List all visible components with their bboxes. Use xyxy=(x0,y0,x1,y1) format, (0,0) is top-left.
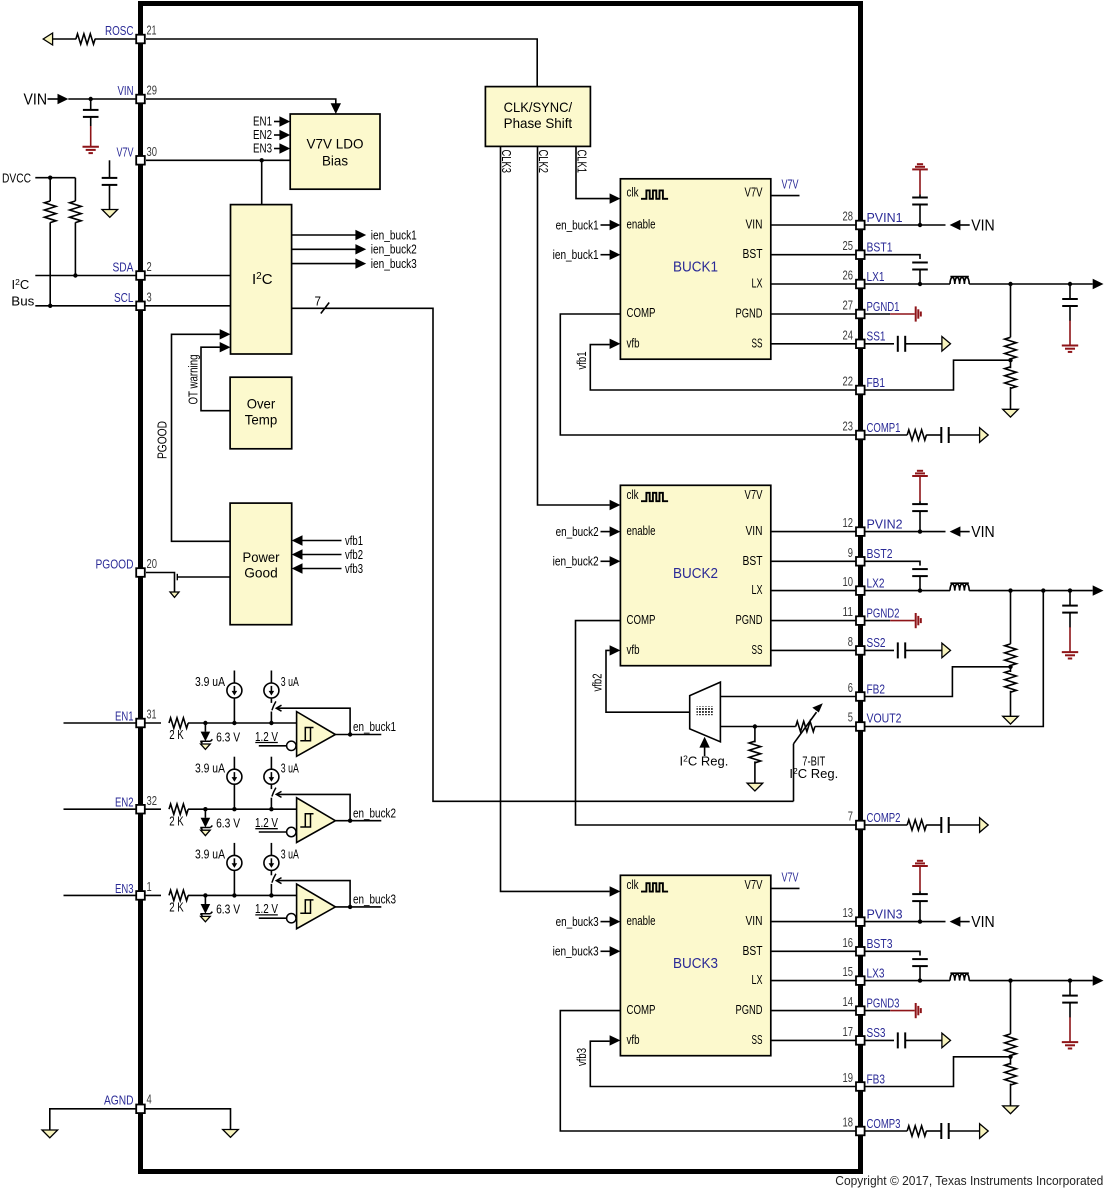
off-page connector SS1 xyxy=(942,337,951,352)
resistor feedback top R BUCK1 xyxy=(1010,284,1012,337)
pin 29 VIN xyxy=(136,95,145,104)
svg-text:vfb3: vfb3 xyxy=(575,1048,589,1066)
wire FB3 from divider to pin xyxy=(865,1057,1011,1087)
node EN3 switch xyxy=(269,893,273,897)
block V7V LDO Bias xyxy=(290,114,380,189)
svg-text:SS: SS xyxy=(752,1032,763,1047)
svg-text:PGND: PGND xyxy=(736,612,763,627)
variable resistor 7-bit trim xyxy=(796,721,815,731)
svg-text:BUCK1: BUCK1 xyxy=(673,259,718,275)
svg-text:en_buck3: en_buck3 xyxy=(353,892,396,907)
wire V7V net xyxy=(146,159,290,161)
svg-text:BST: BST xyxy=(743,943,763,958)
power ground symbol PGND2 xyxy=(915,613,917,628)
pin 7 COMP2 xyxy=(856,821,865,830)
wire LX pin BUCK3 xyxy=(771,980,856,982)
capacitor output BUCK3 xyxy=(1069,981,1071,996)
svg-text:enable: enable xyxy=(627,523,656,538)
wire SS pin BUCK2 xyxy=(771,649,856,651)
svg-text:vfb: vfb xyxy=(627,335,640,350)
resistor feedback bottom R BUCK3 xyxy=(1010,1057,1012,1065)
svg-text:22: 22 xyxy=(843,374,854,389)
mux select arrow from I2C register xyxy=(704,747,706,757)
wire COMP1 from COMP output xyxy=(560,314,856,435)
current source 3.9uA EN2 xyxy=(233,784,235,809)
svg-text:I2C: I2C xyxy=(252,271,273,288)
svg-text:5: 5 xyxy=(848,710,853,725)
svg-text:PGOOD: PGOOD xyxy=(156,421,170,459)
svg-text:Power: Power xyxy=(243,549,280,565)
pin 4 AGND xyxy=(136,1105,145,1114)
comparator output en_buck3 xyxy=(335,906,381,908)
node VOUT2 divider tap xyxy=(720,726,795,728)
svg-text:Bus: Bus xyxy=(11,294,35,309)
Power Good input vfb2 xyxy=(292,549,303,559)
capacitor soft-start SS2 xyxy=(897,642,899,658)
resistor R pullup SDA xyxy=(74,178,76,201)
wire VIN pin BUCK1 xyxy=(771,224,856,226)
svg-text:COMP: COMP xyxy=(627,305,656,320)
wire PGOOD net from Power Good to I2C xyxy=(172,334,231,541)
pin 22 FB1 xyxy=(856,386,865,395)
svg-text:ien_buck3: ien_buck3 xyxy=(553,944,599,959)
ground output cap BUCK3 xyxy=(1062,1041,1078,1043)
svg-text:8: 8 xyxy=(848,634,853,649)
svg-text:LX: LX xyxy=(752,582,763,597)
svg-text:I2C: I2C xyxy=(12,277,30,292)
svg-text:en_buck1: en_buck1 xyxy=(353,719,396,734)
svg-text:OT warning: OT warning xyxy=(187,354,201,404)
zener diode 6.3V EN3 xyxy=(204,895,206,904)
resistor feedback bottom R BUCK2 xyxy=(1010,667,1012,672)
svg-text:20: 20 xyxy=(147,556,158,571)
wire VIN to V7V LDO xyxy=(146,99,336,104)
inductor L3 xyxy=(950,974,969,981)
svg-text:BST: BST xyxy=(743,553,763,568)
ground AGND right xyxy=(223,1130,239,1138)
svg-text:VOUT2: VOUT2 xyxy=(867,711,902,726)
node VIN bypass xyxy=(89,97,93,101)
capacitor PVIN3 bypass xyxy=(919,901,921,922)
svg-text:6: 6 xyxy=(848,680,853,695)
current source 3uA EN1 xyxy=(264,683,279,698)
resistor 2K EN2 xyxy=(169,804,188,814)
svg-text:FB1: FB1 xyxy=(867,375,886,390)
svg-text:1.2 V: 1.2 V xyxy=(255,729,278,744)
svg-text:3: 3 xyxy=(147,289,152,304)
svg-text:BUCK2: BUCK2 xyxy=(673,566,718,582)
resistor 2K EN1 xyxy=(169,718,188,728)
node feedback tap BUCK1 xyxy=(1010,359,1012,361)
wire V7V to I2C block xyxy=(261,160,263,204)
ground feedback divider BUCK3 xyxy=(1003,1106,1019,1114)
I2C output ien_buck2 xyxy=(292,248,356,250)
wire EN1 node segment xyxy=(188,722,297,724)
svg-text:LX3: LX3 xyxy=(867,965,885,980)
ground V7V bypass AGND triangle xyxy=(102,210,118,218)
node EN2 3.9uA xyxy=(232,807,236,811)
svg-text:V7V: V7V xyxy=(745,877,763,892)
svg-text:VIN: VIN xyxy=(118,83,134,98)
svg-text:clk: clk xyxy=(627,487,639,502)
IC boundary rectangle xyxy=(141,4,861,1172)
svg-text:24: 24 xyxy=(843,327,854,342)
ground AGND left xyxy=(42,1130,58,1138)
pin 26 LX1 xyxy=(856,280,865,289)
svg-text:Copyright © 2017, Texas Instru: Copyright © 2017, Texas Instruments Inco… xyxy=(835,1173,1103,1188)
svg-text:7: 7 xyxy=(848,809,853,824)
svg-text:CLK2: CLK2 xyxy=(536,150,550,174)
comparator EN1 xyxy=(297,712,336,757)
svg-text:3.9 uA: 3.9 uA xyxy=(195,760,225,775)
reference 1.2V EN3 xyxy=(287,914,296,923)
ground PGOOD FET source xyxy=(170,592,179,597)
svg-text:LX1: LX1 xyxy=(867,269,885,284)
capacitor output BUCK2 xyxy=(1069,591,1071,606)
pin 19 FB3 xyxy=(856,1082,865,1091)
svg-text:V7V: V7V xyxy=(782,177,799,192)
block Over Temp xyxy=(230,377,292,449)
power ground symbol PGND3 xyxy=(915,1003,917,1018)
svg-text:vfb3: vfb3 xyxy=(345,561,363,576)
svg-text:13: 13 xyxy=(843,905,854,920)
svg-text:27: 27 xyxy=(843,298,854,313)
block BUCK1 xyxy=(620,179,770,359)
zener diode 6.3V EN2 xyxy=(204,809,206,818)
svg-text:4: 4 xyxy=(147,1092,152,1107)
capacitor PVIN2 bypass xyxy=(919,511,921,531)
svg-text:19: 19 xyxy=(843,1070,854,1085)
svg-text:21: 21 xyxy=(147,23,157,38)
wire ROSC external xyxy=(53,38,77,40)
wire EN2 external xyxy=(64,808,137,810)
svg-text:1: 1 xyxy=(147,879,152,894)
reference 1.2V EN1 xyxy=(287,741,296,750)
capacitor BST1 bootstrap xyxy=(912,262,928,264)
reference 1.2V EN2 xyxy=(287,827,296,836)
arrowhead output BUCK3 xyxy=(1093,975,1104,985)
inductor L2 xyxy=(950,584,969,591)
svg-text:enable: enable xyxy=(627,217,656,232)
wire SS1 to off-page xyxy=(905,343,942,345)
pin 9 BST2 xyxy=(856,557,865,566)
BUCK3 V7V net stub and label xyxy=(771,887,800,889)
svg-text:ien_buck1: ien_buck1 xyxy=(553,247,599,262)
ground PVIN3 inverted earth xyxy=(917,860,923,862)
resistor on ROSC xyxy=(76,34,95,44)
feedback wire to switch EN2 xyxy=(278,794,351,820)
wire EN3 external xyxy=(64,894,137,896)
svg-text:SCL: SCL xyxy=(114,290,134,305)
svg-text:23: 23 xyxy=(843,419,854,434)
ground zener EN3 xyxy=(201,916,211,921)
switch EN1 hysteresis current xyxy=(270,698,272,703)
pin 18 COMP3 xyxy=(856,1127,865,1136)
current source 3uA EN2 xyxy=(264,769,279,784)
svg-text:V7V LDO: V7V LDO xyxy=(307,135,364,151)
svg-text:vfb2: vfb2 xyxy=(591,673,605,691)
svg-text:PGND: PGND xyxy=(736,306,763,321)
wire LX1 output xyxy=(969,283,1092,285)
svg-text:clk: clk xyxy=(627,877,639,892)
node EN1 3.9uA xyxy=(232,721,236,725)
svg-text:ien_buck3: ien_buck3 xyxy=(371,256,417,271)
off-page connector ROSC xyxy=(43,33,52,45)
block BUCK2 xyxy=(620,485,770,665)
feedback wire to switch EN3 xyxy=(278,881,351,907)
svg-text:CLK1: CLK1 xyxy=(575,150,589,174)
wire EN1 external xyxy=(64,722,137,724)
svg-text:3 uA: 3 uA xyxy=(281,674,299,689)
wire LX pin BUCK2 xyxy=(771,590,856,592)
svg-text:PGND: PGND xyxy=(736,1002,763,1017)
svg-text:VIN: VIN xyxy=(971,217,995,234)
wire LX2 output xyxy=(969,590,1092,592)
wire PGND pin BUCK2 xyxy=(771,620,856,622)
svg-text:COMP3: COMP3 xyxy=(867,1116,901,1131)
node V7V xyxy=(260,158,264,162)
pin 6 FB2 xyxy=(856,692,865,701)
I2C input PGOOD arrow xyxy=(220,329,231,339)
svg-text:SS1: SS1 xyxy=(867,329,886,344)
mux hatch pattern xyxy=(697,706,713,715)
Power Good input vfb1 xyxy=(292,535,303,545)
svg-text:6.3 V: 6.3 V xyxy=(216,816,240,831)
svg-text:BUCK3: BUCK3 xyxy=(673,956,718,972)
svg-text:VIN: VIN xyxy=(746,217,763,232)
svg-text:1.2 V: 1.2 V xyxy=(255,901,278,916)
node EN3 3.9uA xyxy=(232,893,236,897)
svg-text:VIN: VIN xyxy=(746,523,763,538)
wire SCL xyxy=(35,305,136,307)
wire ROSC to CLK/SYNC block xyxy=(146,39,537,87)
pin 17 SS3 xyxy=(856,1036,865,1045)
switch EN2 hysteresis current xyxy=(270,784,272,789)
wire EN1 to resistor xyxy=(145,722,161,724)
VIN arrowhead and label BUCK2 xyxy=(950,526,961,536)
svg-text:11: 11 xyxy=(843,604,854,619)
svg-text:PVIN2: PVIN2 xyxy=(867,516,903,531)
pin 25 BST1 xyxy=(856,250,865,259)
svg-text:2: 2 xyxy=(147,259,152,274)
svg-text:PGND1: PGND1 xyxy=(867,299,900,314)
wire LX3 output xyxy=(969,980,1092,982)
wire COMP2 from COMP output xyxy=(576,621,857,825)
svg-text:SS: SS xyxy=(752,642,763,657)
wire BST pin BUCK1 xyxy=(771,254,856,256)
svg-text:18: 18 xyxy=(843,1115,854,1130)
svg-text:LX: LX xyxy=(752,276,763,291)
ground output cap BUCK1 xyxy=(1062,345,1078,347)
svg-text:15: 15 xyxy=(843,964,854,979)
open-drain transistor at PGOOD xyxy=(176,574,178,581)
wire VOUT2 sense to output node xyxy=(865,591,1044,727)
svg-text:I2C Reg.: I2C Reg. xyxy=(789,766,838,781)
wire VOUT2 to trim resistor xyxy=(815,726,856,728)
wire PGND pin BUCK3 xyxy=(771,1010,856,1012)
capacitor BST2 bootstrap xyxy=(912,568,928,570)
arrowhead output BUCK1 xyxy=(1093,279,1104,289)
bus width slash xyxy=(321,303,329,314)
svg-text:V7V: V7V xyxy=(782,869,799,884)
wire PGOOD pin to open-drain FET xyxy=(146,573,175,593)
resistor R pullup SCL xyxy=(49,178,51,201)
svg-text:ien_buck2: ien_buck2 xyxy=(553,554,599,569)
pin 14 PGND3 xyxy=(856,1006,865,1015)
wire mux output to vfb2 xyxy=(606,650,690,712)
ground VIN bypass xyxy=(83,146,99,148)
current source 3uA EN3 xyxy=(264,855,279,870)
wire OT warning net xyxy=(201,347,230,411)
wire LX pin BUCK1 xyxy=(771,283,856,285)
svg-text:vfb1: vfb1 xyxy=(575,351,589,369)
svg-text:3 uA: 3 uA xyxy=(281,847,299,862)
VIN arrowhead and label BUCK3 xyxy=(950,916,961,926)
comparator EN3 xyxy=(297,884,336,929)
resistor feedback bottom R BUCK1 xyxy=(1010,360,1012,368)
svg-text:BST1: BST1 xyxy=(867,240,893,255)
svg-text:Good: Good xyxy=(244,565,278,581)
resistor VOUT2 divider lower xyxy=(754,727,756,743)
pin 13 PVIN3 xyxy=(856,917,865,926)
pin 12 PVIN2 xyxy=(856,527,865,536)
arrowhead output BUCK2 xyxy=(1093,585,1104,595)
pin 24 SS1 xyxy=(856,340,865,349)
pin 28 PVIN1 xyxy=(856,221,865,230)
compensation network COMP1 xyxy=(865,434,908,436)
resistor feedback top R BUCK3 xyxy=(1010,981,1012,1034)
wire VIN input xyxy=(48,98,59,100)
svg-text:FB3: FB3 xyxy=(867,1071,886,1086)
svg-text:BST3: BST3 xyxy=(867,936,893,951)
svg-text:vfb2: vfb2 xyxy=(345,547,363,562)
arrowhead VIN into chip xyxy=(58,94,69,104)
svg-text:ien_buck2: ien_buck2 xyxy=(371,242,417,257)
pin 20 PGOOD xyxy=(136,568,145,577)
off-page connector COMP3 xyxy=(980,1124,989,1139)
svg-text:V7V: V7V xyxy=(745,184,763,199)
capacitor PVIN1 bypass xyxy=(919,205,921,226)
ground output cap BUCK2 xyxy=(1062,651,1078,653)
wire vfb3 from FB3 to vfb input xyxy=(590,1041,856,1086)
svg-text:2 K: 2 K xyxy=(169,900,184,915)
svg-text:EN3: EN3 xyxy=(115,881,134,896)
svg-text:1.2 V: 1.2 V xyxy=(255,815,278,830)
wire BST pin BUCK2 xyxy=(771,560,856,562)
svg-text:EN2: EN2 xyxy=(115,795,134,810)
I2C 7-bit bus wire to VOUT2 DAC xyxy=(292,308,794,801)
pin 8 SS2 xyxy=(856,646,865,655)
svg-text:PGOOD: PGOOD xyxy=(96,557,134,572)
svg-text:en_buck2: en_buck2 xyxy=(353,805,396,820)
pin 30 V7V xyxy=(136,156,145,165)
node EN1 zener xyxy=(203,721,207,725)
pin 2 SDA xyxy=(136,271,145,280)
svg-text:ROSC: ROSC xyxy=(105,23,134,38)
comparator output en_buck2 xyxy=(335,820,381,822)
wire COMP3 from COMP output xyxy=(560,1011,856,1131)
ground PVIN2 inverted earth xyxy=(917,470,923,472)
wire SS pin BUCK1 xyxy=(771,343,856,345)
Power Good input vfb3 xyxy=(292,563,303,573)
svg-text:en_buck2: en_buck2 xyxy=(556,524,599,539)
svg-text:FB2: FB2 xyxy=(867,681,886,696)
svg-text:SS2: SS2 xyxy=(867,635,886,650)
wire SS3 to off-page xyxy=(905,1039,942,1041)
wire PGND pin BUCK1 xyxy=(771,313,856,315)
wire AGND left xyxy=(50,1109,136,1130)
ground feedback divider BUCK1 xyxy=(1003,409,1019,417)
wire FB2 to mux input xyxy=(720,696,856,698)
compensation network COMP3 xyxy=(865,1130,908,1132)
node EN1 switch xyxy=(269,721,273,725)
wire EN3 to resistor xyxy=(145,894,161,896)
svg-text:2 K: 2 K xyxy=(169,813,184,828)
off-page connector COMP2 xyxy=(980,818,989,833)
svg-text:en_buck3: en_buck3 xyxy=(556,914,599,929)
wire SDA xyxy=(35,275,136,277)
node feedback tap BUCK3 xyxy=(1010,1055,1012,1057)
current source 3.9uA EN1 xyxy=(233,698,235,723)
svg-text:3 uA: 3 uA xyxy=(281,760,299,775)
svg-text:VIN: VIN xyxy=(746,913,763,928)
pin 15 LX3 xyxy=(856,976,865,985)
svg-text:vfb1: vfb1 xyxy=(345,533,363,548)
svg-text:32: 32 xyxy=(147,793,158,808)
svg-text:10: 10 xyxy=(843,574,854,589)
svg-text:enable: enable xyxy=(627,913,656,928)
ground PVIN1 inverted earth xyxy=(917,163,923,165)
wire BST pin BUCK3 xyxy=(771,950,856,952)
comparator EN2 xyxy=(297,798,336,843)
svg-text:COMP: COMP xyxy=(627,1002,656,1017)
wire AGND right xyxy=(145,1109,231,1130)
svg-text:6.3 V: 6.3 V xyxy=(216,902,240,917)
wire EN2 node segment xyxy=(188,808,297,810)
svg-text:PGND2: PGND2 xyxy=(867,605,900,620)
svg-text:AGND: AGND xyxy=(104,1093,134,1108)
svg-text:LX: LX xyxy=(752,972,763,987)
capacitor V7V bypass xyxy=(109,160,111,178)
switch EN3 hysteresis current xyxy=(270,870,272,875)
svg-text:PVIN1: PVIN1 xyxy=(867,210,903,225)
svg-text:29: 29 xyxy=(147,83,158,98)
svg-text:V7V: V7V xyxy=(745,487,763,502)
ground zener EN1 xyxy=(201,744,211,749)
current source 3.9uA EN3 xyxy=(233,870,235,895)
pin 3 SCL xyxy=(136,302,145,311)
capacitor soft-start SS1 xyxy=(897,336,899,352)
capacitor output BUCK1 xyxy=(1069,284,1071,299)
svg-text:3.9 uA: 3.9 uA xyxy=(195,674,225,689)
svg-text:PGND3: PGND3 xyxy=(867,995,900,1010)
pin 5 VOUT2 xyxy=(856,722,865,731)
svg-text:Bias: Bias xyxy=(322,152,348,168)
svg-text:clk: clk xyxy=(627,184,639,199)
svg-text:COMP1: COMP1 xyxy=(867,420,901,435)
pin 11 PGND2 xyxy=(856,616,865,625)
svg-text:BST2: BST2 xyxy=(867,546,893,561)
svg-text:DVCC: DVCC xyxy=(2,170,31,185)
I2C output ien_buck3 xyxy=(292,263,356,265)
svg-text:SS3: SS3 xyxy=(867,1025,886,1040)
svg-text:EN1: EN1 xyxy=(115,709,134,724)
svg-text:BST: BST xyxy=(743,246,763,261)
svg-text:SS: SS xyxy=(752,335,763,350)
off-page connector SS3 xyxy=(942,1033,951,1048)
block CLK/SYNC Phase Shift xyxy=(485,87,590,147)
node EN3 zener xyxy=(203,893,207,897)
